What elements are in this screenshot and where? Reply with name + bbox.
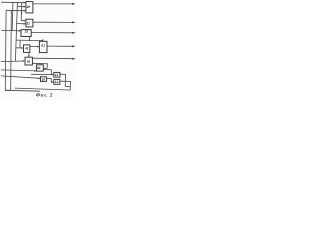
arrowhead into block 9 top [28, 56, 30, 58]
arrowhead output 20 [72, 3, 75, 5]
wire output of block 11 [60, 74, 66, 86]
wire input to block 21 pin 2 from riser [16, 23, 24, 25]
arrowhead into block 8 right side [43, 68, 45, 70]
wire bottom jog [65, 85, 70, 87]
svg-text:61: 61 [41, 44, 45, 48]
arrowhead into block 21 pin 1 [24, 20, 26, 22]
wire drop x20.1 to block 41 input [16, 40, 23, 48]
svg-text:82: 82 [37, 66, 41, 70]
block 61 [39, 41, 47, 52]
svg-text:12: 12 [55, 80, 59, 84]
wire output of block 12 [60, 81, 71, 90]
wire vertical riser L5 to block 21 pin 1 [21, 2, 24, 20]
svg-text:41: 41 [24, 47, 29, 51]
wire output of block 21 [33, 21, 73, 23]
arrowhead into block 8 left [34, 70, 36, 72]
wire drop from block 22 bottom to distribution line [29, 37, 31, 41]
wire input to block 20 pin 2 from riser [17, 5, 24, 7]
arrowhead output 21 [72, 21, 75, 23]
wire connector block 41 bottom to block 9 top [28, 52, 30, 56]
wire output of block 61 [47, 45, 73, 47]
block 21 [26, 19, 33, 27]
block 11 [54, 72, 60, 77]
junction dot block 22 drop [29, 40, 30, 41]
wire input line to block 8 [1, 70, 36, 71]
block 10 [41, 77, 47, 82]
arrowhead into block 20 pin 3 [24, 10, 26, 12]
block 41 [24, 45, 30, 53]
block 12 [54, 79, 60, 84]
block 20 [26, 2, 33, 13]
arrowhead output 61 [72, 45, 75, 47]
wire distribution line y40.3 into block 61 top [16, 40, 42, 41]
svg-text:21: 21 [25, 22, 30, 26]
arrowhead into block 11 [52, 74, 54, 76]
arrowhead into block 61 top [42, 40, 44, 42]
wire long line y74.4 [31, 73, 51, 75]
block 22 [21, 30, 31, 37]
arrowhead into block 22 [19, 30, 21, 32]
wire output 2 of block 9 into right side of block 8 [33, 63, 48, 68]
wire left bus L1 [5, 10, 10, 90]
wire input line to block 10 [1, 76, 40, 78]
arrowhead into block 10 [38, 78, 40, 80]
block 9 [25, 57, 32, 65]
wire vertical riser L4 [15, 2, 17, 61]
wire output of block 10 to block 12 [47, 78, 53, 82]
arrowhead into block 41 [21, 47, 23, 49]
block 8 [36, 65, 43, 71]
svg-text:22: 22 [24, 30, 29, 34]
wire input line to block 9 [1, 60, 24, 63]
wire output of block 8 to block 11 [43, 70, 52, 75]
arrowhead output 22 [72, 32, 75, 34]
svg-text:20: 20 [26, 5, 31, 9]
arrowhead into block 21 pin 2 [24, 23, 26, 25]
svg-text:10: 10 [42, 78, 46, 82]
arrowhead block 41 out into block 61 [37, 46, 39, 48]
junction dot riser L5 [21, 12, 22, 13]
arrowhead into block 20 pin 1 [24, 2, 26, 4]
wire vertical L3 [11, 2, 14, 30]
svg-text:Фиг. 2: Фиг. 2 [36, 92, 53, 98]
wire output 1 of block 9 [33, 57, 74, 60]
arrowhead output block 9 [72, 58, 75, 60]
wire output of block 20 [33, 3, 73, 5]
arrowhead into block 12 [52, 81, 54, 83]
wire top input line to block 20 pin 1 [1, 1, 24, 4]
svg-text:92: 92 [27, 59, 31, 63]
svg-text:11: 11 [55, 73, 59, 77]
wire output of block 22 [31, 32, 73, 34]
wire input line y10.4 to block 20 pin 3 [6, 9, 24, 11]
wire input line to block 22 [1, 29, 20, 32]
arrowhead into block 9 [23, 60, 25, 62]
wire output of block 41 into block 61 [30, 46, 38, 48]
arrowhead into block 20 pin 2 [24, 6, 26, 8]
wire vertical L2 [10, 10, 13, 90]
wire bottom horizontal line B [5, 89, 40, 92]
wire bottom horizontal line A [15, 88, 70, 90]
